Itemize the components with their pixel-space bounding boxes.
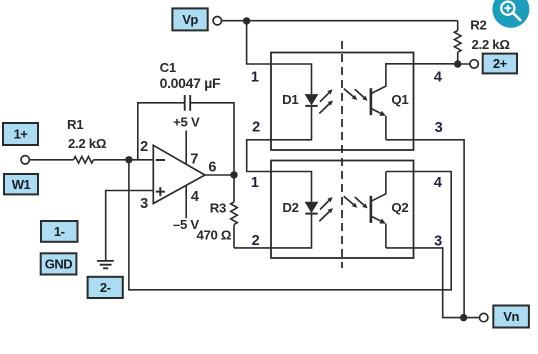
svg-text:2: 2: [140, 139, 148, 155]
svg-text:Q1: Q1: [391, 92, 408, 107]
svg-text:R1: R1: [67, 117, 83, 132]
svg-text:4: 4: [191, 189, 199, 205]
svg-text:R3: R3: [210, 201, 226, 216]
svg-text:R2: R2: [470, 18, 486, 33]
svg-text:2.2 kΩ: 2.2 kΩ: [472, 37, 511, 52]
svg-text:2: 2: [252, 119, 260, 135]
svg-text:Q2: Q2: [391, 200, 408, 215]
svg-text:C1: C1: [160, 60, 176, 75]
svg-text:2+: 2+: [493, 56, 508, 71]
svg-text:1: 1: [251, 175, 259, 191]
svg-text:470 Ω: 470 Ω: [196, 228, 231, 243]
svg-text:6: 6: [208, 160, 216, 176]
svg-text:7: 7: [190, 151, 198, 167]
svg-text:4: 4: [434, 69, 442, 85]
svg-text:W1: W1: [12, 177, 31, 192]
svg-text:Vn: Vn: [503, 309, 519, 324]
svg-text:GND: GND: [45, 257, 73, 272]
svg-text:2.2 kΩ: 2.2 kΩ: [68, 136, 107, 151]
svg-text:1: 1: [251, 69, 259, 85]
svg-text:3: 3: [140, 196, 148, 212]
svg-text:3: 3: [434, 234, 442, 250]
svg-text:Vp: Vp: [182, 12, 198, 27]
svg-text:3: 3: [435, 120, 443, 136]
svg-text:D1: D1: [282, 92, 298, 107]
svg-text:2: 2: [252, 233, 260, 249]
svg-text:2-: 2-: [100, 280, 111, 295]
svg-text:0.0047 µF: 0.0047 µF: [160, 75, 221, 91]
svg-text:D2: D2: [282, 200, 298, 215]
svg-text:4: 4: [434, 175, 442, 191]
svg-text:1-: 1-: [54, 224, 65, 239]
svg-text:+5 V: +5 V: [173, 114, 200, 129]
svg-text:–5 V: –5 V: [173, 217, 199, 232]
svg-text:1+: 1+: [14, 127, 29, 142]
